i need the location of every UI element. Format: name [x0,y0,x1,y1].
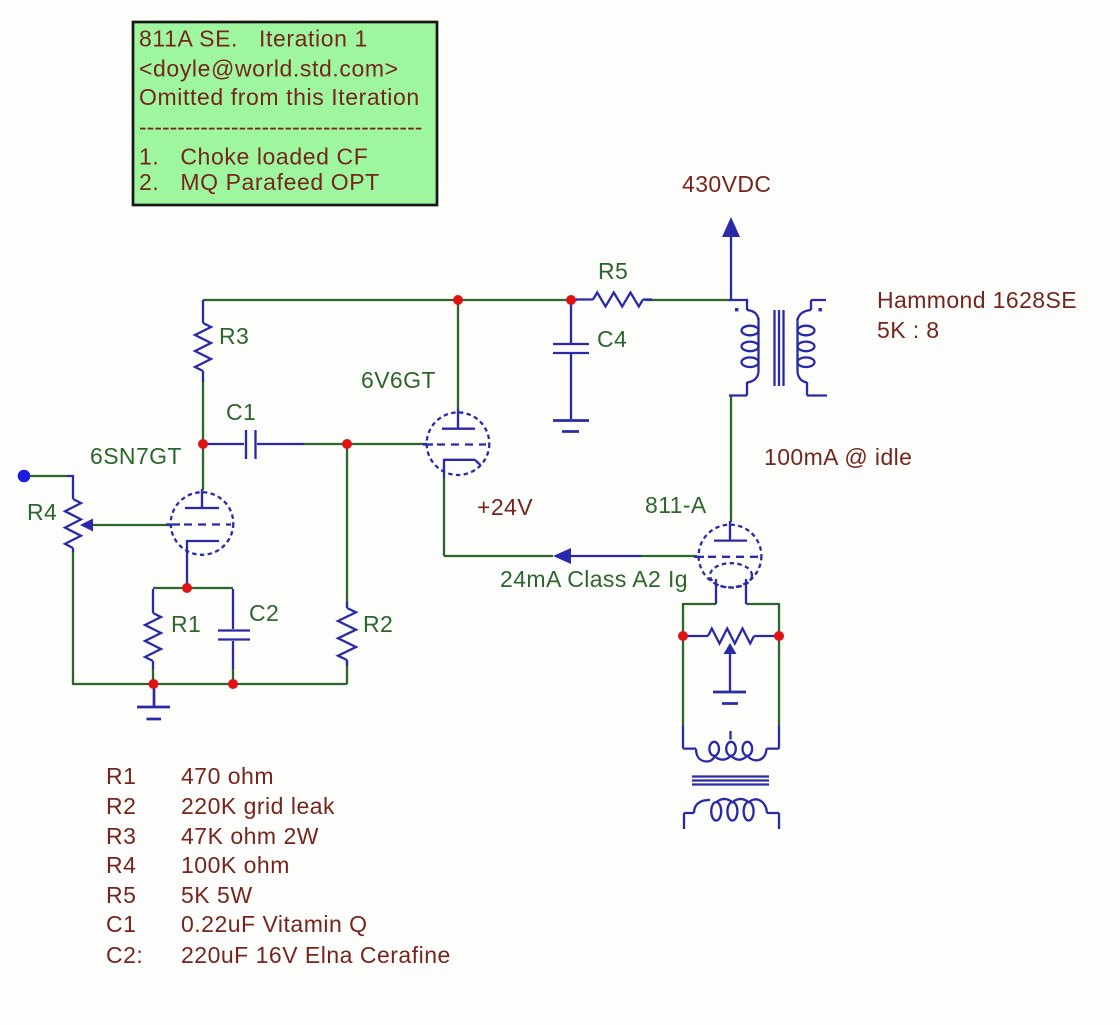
svg-text:2. MQ Parafeed OPT: 2. MQ Parafeed OPT [139,169,380,195]
wire R2 bottom to bottom rail [346,661,348,684]
wire C1 right to grid node [303,443,427,445]
svg-text:+24V: +24V [477,494,533,520]
svg-text:100mA @ idle: 100mA @ idle [764,444,912,470]
filament transformer primary winding [684,813,694,829]
svg-text:R1: R1 [106,763,136,789]
ground below C4 [553,421,589,432]
svg-text:C2: C2 [249,600,279,626]
wire bottom rail [72,683,347,685]
wire grid node down to R2 [346,446,348,607]
svg-text:811-A: 811-A [645,492,707,518]
svg-text:C1: C1 [106,911,136,937]
svg-text:<doyle@world.std.com>: <doyle@world.std.com> [139,56,399,82]
resistor R5 [593,293,643,307]
wire 811 filament right to box [746,603,779,605]
svg-text:R3: R3 [106,823,136,849]
svg-text:------------------------------: ------------------------------------- [139,114,422,140]
svg-text:R5: R5 [106,882,136,908]
current arrow 24mA [570,555,641,557]
ground below hum pot [713,692,746,704]
transformer T1 secondary winding [811,300,826,310]
filament transformer core [692,777,769,785]
resistor R2 [338,608,356,660]
svg-text:5K : 8: 5K : 8 [877,317,940,343]
wire filament box left vertical [682,603,684,726]
junction node ground rail C2 [228,679,238,689]
wire top rail B+ right [645,299,730,301]
svg-text:0.22uF Vitamin Q: 0.22uF Vitamin Q [181,911,368,937]
filament transformer center tap tick [729,731,731,740]
svg-text:R4: R4 [106,852,136,878]
wire R3 bottom to C1 node [202,381,204,443]
R4 wiper arrow [80,519,93,532]
resistor R3 [195,323,211,371]
svg-text:Hammond 1628SE: Hammond 1628SE [877,287,1077,313]
wire R1 bottom lead green [152,668,154,683]
wire filament box right vertical [778,603,780,726]
junction node hum pot right [774,631,784,641]
wire OPT primary bottom to 811 plate [730,396,732,522]
svg-text:R1: R1 [171,611,201,637]
svg-text:5K 5W: 5K 5W [181,882,253,908]
svg-text:47K ohm 2W: 47K ohm 2W [181,823,319,849]
wire 811 filament left to box [683,603,716,605]
svg-text:R4: R4 [27,499,57,525]
svg-text:C1: C1 [226,399,256,425]
component value list [106,763,451,968]
wire R1 C2 top rail [153,587,233,589]
svg-text:1. Choke loaded CF: 1. Choke loaded CF [139,144,368,170]
wire B+ node to 6V6 plate [457,302,459,410]
svg-text:6SN7GT: 6SN7GT [90,443,182,469]
svg-text:24mA Class A2 Ig: 24mA Class A2 Ig [500,566,688,592]
input node terminal [18,470,31,483]
svg-text:C2:: C2: [106,942,143,968]
svg-text:Omitted from this Iteration: Omitted from this Iteration [139,84,420,110]
wire arrow to 811 grid [641,555,697,557]
capacitor C2 [218,589,250,669]
wire input node to R4 top [28,475,67,477]
triode V1 811-A [699,525,762,588]
svg-text:R3: R3 [219,323,249,349]
svg-text:100K ohm: 100K ohm [181,852,290,878]
wire C1 node to 6SN7 plate [202,445,204,490]
hum pot wiper arrow [724,643,737,654]
wire C2 bottom lead green [232,668,234,683]
svg-text:220uF 16V Elna Cerafine: 220uF 16V Elna Cerafine [181,942,451,968]
capacitor C4 [553,302,589,419]
wire top rail B+ left [203,299,577,301]
ground below R1 [137,686,170,719]
filament transformer secondary winding [683,726,696,749]
svg-text:C4: C4 [597,326,627,352]
transformer T1 core [775,310,784,386]
wire 6V6 cathode down [443,478,445,556]
junction node cathode/R1/C2 [182,583,192,593]
svg-text:811A SE. Iteration 1: 811A SE. Iteration 1 [139,26,368,52]
transformer T1 primary winding [729,300,747,310]
wire 6V6 cathode to arrow [444,555,553,557]
junction node hum pot left [678,631,688,641]
svg-text:430VDC: 430VDC [682,171,771,197]
wire 6SN7 grid to R4 wiper [91,524,171,526]
transformer T1 polarity dots [735,308,738,311]
hum balance potentiometer [708,629,754,644]
svg-text:470 ohm: 470 ohm [181,763,274,789]
svg-text:R5: R5 [598,258,628,284]
svg-text:6V6GT: 6V6GT [361,367,436,393]
triode U1 6SN7GT [171,492,234,555]
capacitor C1 [205,430,304,459]
svg-text:220K grid leak: 220K grid leak [181,793,335,819]
svg-text:R2: R2 [363,611,393,637]
junction node C1/R3/plate [198,439,208,449]
title note box [133,22,437,205]
svg-text:R2: R2 [106,793,136,819]
junction node ground rail R1 [149,679,159,689]
potentiometer R4 [65,499,81,548]
811-A filament [710,563,752,587]
triode U2 6V6GT [427,412,490,475]
resistor R1 [145,613,161,661]
wire R4 bottom to bottom rail [72,551,74,684]
junction node grid/R2 [342,439,352,449]
junction node R5/C4 [566,295,576,305]
junction node B+/6V6 plate [453,295,463,305]
430VDC supply arrow [730,237,732,300]
